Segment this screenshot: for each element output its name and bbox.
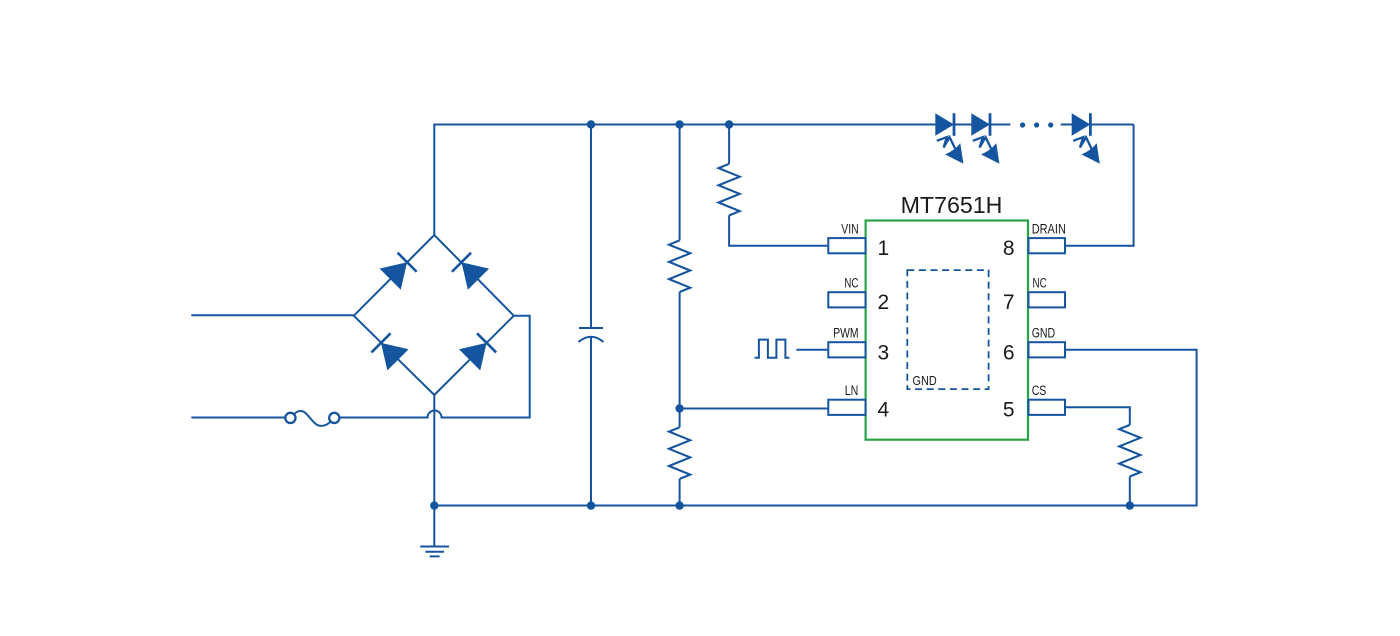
svg-text:5: 5 [1003,399,1015,422]
svg-text:NC: NC [1033,275,1047,290]
svg-text:1: 1 [878,237,890,260]
svg-text:PWM: PWM [833,325,858,340]
svg-text:8: 8 [1003,237,1015,260]
svg-text:2: 2 [878,291,890,314]
svg-text:3: 3 [878,342,890,365]
svg-text:6: 6 [1003,342,1015,365]
svg-text:4: 4 [878,399,890,422]
svg-text:VIN: VIN [841,221,858,236]
svg-text:GND: GND [913,373,937,388]
svg-text:GND: GND [1032,325,1056,340]
svg-text:CS: CS [1032,383,1047,398]
svg-text:DRAIN: DRAIN [1032,221,1066,236]
svg-text:NC: NC [844,275,858,290]
svg-text:7: 7 [1003,291,1015,314]
svg-text:MT7651H: MT7651H [901,192,1003,218]
svg-text:LN: LN [845,383,859,398]
